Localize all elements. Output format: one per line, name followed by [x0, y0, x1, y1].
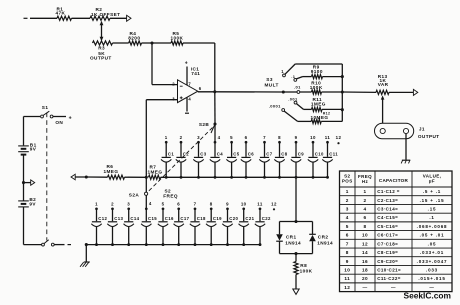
svg-text:3: 3 [197, 135, 200, 140]
bottom capacitor bus wire [86, 244, 260, 246]
switch S2B contact 4 [214, 135, 221, 144]
svg-text:1: 1 [281, 69, 284, 74]
interstage jump arrow (left) [71, 174, 75, 180]
svg-text:47K: 47K [56, 11, 66, 16]
wire J1 sleeve to ground [405, 134, 407, 160]
svg-text:.1: .1 [429, 215, 434, 220]
svg-text:C1·C12 =: C1·C12 = [377, 189, 400, 194]
switch S2B contact 3 [197, 135, 200, 143]
svg-text:C20: C20 [229, 216, 238, 221]
svg-text:1: 1 [95, 202, 98, 207]
label S3 MULT [265, 77, 279, 87]
svg-text:12: 12 [336, 135, 342, 140]
battery B2 9V [18, 183, 36, 207]
switch S2B contact 11 [325, 135, 331, 143]
label S2 FREQ [163, 189, 178, 199]
resistor R4 8200 [128, 31, 141, 45]
svg-text:11: 11 [344, 276, 350, 281]
svg-text:OUTPUT: OUTPUT [90, 55, 112, 60]
svg-text:1N914: 1N914 [285, 241, 301, 246]
label J1 OUTPUT [418, 126, 440, 138]
switch S2A contact 12 [271, 202, 277, 211]
R13 wiper arrow to jack [381, 95, 385, 123]
svg-text:CR1: CR1 [286, 235, 297, 240]
switch S2B contact 9 [295, 135, 298, 143]
jack J1 body [375, 123, 414, 139]
node battery midpoint [22, 181, 25, 184]
op-amp non-inverting input sign [180, 97, 183, 99]
minus rail marker [68, 244, 72, 246]
svg-text:S1: S1 [42, 105, 49, 110]
battery B1 9V [18, 142, 37, 154]
svg-text:9V: 9V [30, 147, 37, 152]
svg-text:10: 10 [310, 135, 316, 140]
capacitor C22 [255, 209, 271, 246]
feedback wire down to output node [214, 43, 216, 92]
svg-text:6: 6 [177, 202, 180, 207]
svg-text:.068+.0068: .068+.0068 [417, 224, 448, 229]
svg-text:POS: POS [342, 179, 353, 184]
table of capacitor values [340, 171, 453, 292]
capacitor C20 [222, 209, 238, 246]
label IC1 741 [191, 67, 200, 77]
wire R1 to R2 [72, 17, 91, 19]
wire R12 to bus corner [321, 120, 342, 122]
svg-text:C3: C3 [200, 152, 207, 157]
svg-text:.1: .1 [291, 74, 296, 79]
switch S3 contact 3 (.01) on wiper line [283, 84, 311, 93]
svg-text:3: 3 [127, 202, 130, 207]
switch S2A contact 9 [226, 202, 229, 211]
wire R5 to feedback corner [183, 42, 215, 44]
ground (chassis) at J1 [401, 160, 410, 163]
svg-text:1: 1 [165, 135, 168, 140]
output arrow [413, 89, 417, 95]
resistor R11 1MEG [311, 97, 326, 112]
op-amp pin 7 supply line with plus [186, 67, 188, 86]
capacitor C14 [124, 209, 140, 246]
svg-text:J1: J1 [419, 126, 425, 131]
negative supply rail marker [24, 17, 28, 19]
wire arrow to ground-branch junction [75, 176, 86, 178]
capacitor C12 [91, 209, 107, 246]
capacitor C13 [107, 209, 123, 246]
switch S3 contact 5 (.0001) [269, 103, 285, 111]
potentiometer R2 1K OFFSET [90, 7, 120, 20]
R2 wiper to R3 wiper link [100, 21, 104, 41]
svg-text:12: 12 [344, 285, 350, 290]
svg-text:OUTPUT: OUTPUT [418, 134, 440, 139]
svg-text:9100: 9100 [311, 69, 323, 74]
svg-text:1: 1 [346, 189, 349, 194]
svg-text:—: — [429, 285, 434, 290]
svg-text:R8: R8 [300, 263, 307, 268]
svg-text:C2·C13=: C2·C13= [377, 198, 398, 203]
wire R6 to pin3 junction [125, 176, 147, 178]
resistor R10 100K [310, 81, 323, 95]
capacitor C18 [190, 209, 206, 246]
svg-text:C22: C22 [262, 216, 271, 221]
svg-text:6: 6 [199, 86, 202, 91]
wire R10 to bus [322, 91, 343, 93]
svg-text:2: 2 [111, 202, 114, 207]
resistor R8 100K [294, 254, 313, 275]
wire B1 to battery midpoint [23, 155, 25, 183]
svg-text:C10: C10 [315, 152, 324, 157]
node junction pin3/R6/R7 [145, 176, 148, 179]
capacitor C8 [274, 142, 287, 179]
wire S3 contact 4 arm [297, 104, 304, 110]
potentiometer R13 1K VAR [376, 74, 389, 95]
switch S2B contact 6 [245, 135, 248, 143]
svg-text:C3·C14=: C3·C14= [377, 206, 398, 211]
svg-text:1MEG: 1MEG [311, 101, 326, 106]
svg-text:C11·C22=: C11·C22= [377, 276, 401, 281]
svg-text:7: 7 [188, 81, 191, 86]
wire S1 to battery B1 [23, 117, 25, 146]
svg-text:3: 3 [172, 96, 175, 101]
svg-text:4: 4 [149, 201, 152, 206]
wire junction down to op-amp pin 2 [151, 43, 153, 85]
svg-text:4: 4 [188, 96, 191, 101]
svg-text:16: 16 [362, 259, 368, 264]
switch S2B contact 2 [180, 135, 183, 143]
wire to CR2 cathode [312, 222, 314, 235]
svg-text:.01: .01 [294, 84, 301, 89]
wire output to S3 wiper [215, 91, 283, 93]
wire R2 to offset arrow [110, 17, 127, 19]
wire B2 minus to S1 pole B [23, 207, 25, 245]
svg-text:1: 1 [363, 189, 366, 194]
svg-text:.033+.01: .033+.01 [420, 250, 444, 255]
svg-text:.033: .033 [426, 268, 438, 273]
svg-text:C5·C16=: C5·C16= [377, 224, 398, 229]
switch S3 contact 4 (.001) [288, 96, 298, 104]
svg-text:C17: C17 [180, 216, 189, 221]
capacitor C9 [291, 142, 304, 179]
capacitor C2 [176, 142, 189, 179]
capacitor C16 [158, 209, 174, 246]
resistor R6 1MEG [104, 164, 125, 179]
svg-text:VAR: VAR [378, 82, 389, 87]
wire bus to R13 [342, 91, 376, 93]
wire R4 to R5 with feedback tap [142, 42, 172, 44]
S3 resistor bus vertical wire [341, 64, 343, 121]
svg-text:C4: C4 [217, 152, 224, 157]
svg-text:C21: C21 [245, 216, 254, 221]
svg-text:4: 4 [363, 206, 366, 211]
wire S1 pole A to plus rail [53, 116, 66, 118]
svg-text:C9: C9 [298, 152, 305, 157]
node junction mid-bus/ground branch [85, 175, 88, 178]
diode network bottom wire [280, 253, 313, 255]
svg-text:5: 5 [230, 135, 233, 140]
svg-text:SeekIC.com: SeekIC.com [404, 291, 451, 300]
switch S2A contact 10 [241, 202, 247, 211]
capacitor C7 [259, 142, 272, 179]
capacitor C17 [174, 209, 190, 246]
switch S2A contact 6 [177, 202, 180, 211]
svg-text:—: — [391, 285, 396, 290]
svg-text:C18: C18 [197, 216, 206, 221]
wire R3 to R4 [113, 42, 129, 44]
svg-text:.001: .001 [288, 96, 298, 101]
wire R8 to ground arrow [295, 275, 297, 290]
node junction bus/ground [85, 243, 88, 246]
svg-text:8: 8 [210, 202, 213, 207]
mid capacitor bus wire [161, 176, 328, 178]
jack J1 sleeve terminal [403, 128, 408, 133]
svg-text:C2: C2 [183, 152, 190, 157]
wire S1 pole B to minus rail [54, 244, 64, 246]
svg-text:C13: C13 [114, 216, 123, 221]
resistor R12 10MEG [311, 111, 331, 123]
capacitor C21 [239, 209, 255, 246]
diode network top wire [280, 221, 313, 223]
svg-text:6: 6 [363, 215, 366, 220]
switch S2B contact 10 [310, 135, 316, 143]
svg-text:2: 2 [346, 198, 349, 203]
svg-text:C7: C7 [266, 152, 273, 157]
wire S3 contact 2 arm [296, 77, 302, 79]
svg-text:8: 8 [346, 250, 349, 255]
wire S3 contact 1 direct to bus (x1 position) [285, 64, 295, 74]
svg-text:18: 18 [362, 268, 368, 273]
svg-text:µF: µF [429, 179, 435, 184]
diode CR2 1N914 [309, 234, 333, 245]
node junction R9/bus [341, 75, 344, 78]
svg-text:1N914: 1N914 [317, 241, 333, 246]
svg-text:C9·C20=: C9·C20= [377, 259, 398, 264]
svg-text:20: 20 [362, 276, 368, 281]
switch S2B contact 12 [336, 135, 342, 144]
capacitor C5 [226, 142, 239, 179]
switch S2A contact 1 [95, 202, 98, 211]
svg-text:6: 6 [346, 233, 349, 238]
switch S2B contact 8 [278, 135, 281, 143]
svg-text:5: 5 [346, 224, 349, 229]
wire S3 contact 5 arm [284, 111, 297, 121]
svg-text:2: 2 [363, 198, 366, 203]
wire CR1 cathode down [279, 241, 281, 253]
svg-text:7: 7 [263, 135, 266, 140]
ground (earth) left [80, 245, 90, 267]
svg-text:12: 12 [362, 241, 368, 246]
wire junction to R6 [86, 176, 107, 178]
svg-text:4: 4 [346, 215, 349, 220]
op-amp pin 6 output wire [198, 91, 215, 93]
svg-text:1MEG: 1MEG [104, 169, 119, 174]
svg-text:.15: .15 [428, 206, 437, 211]
switch S1 pole A [41, 111, 53, 118]
svg-text:FREQ: FREQ [163, 194, 178, 199]
switch S2A contact 4 [145, 201, 152, 210]
svg-text:3: 3 [346, 206, 349, 211]
svg-text:2: 2 [172, 81, 175, 86]
switch S2A contact 11 [257, 202, 263, 211]
svg-text:R3: R3 [98, 46, 105, 51]
svg-text:C15: C15 [148, 216, 157, 221]
wire R11 to bus [322, 108, 342, 110]
svg-text:12: 12 [271, 202, 277, 207]
wire to CR1 anode [279, 222, 281, 235]
svg-text:C19: C19 [213, 216, 222, 221]
wire CR2 anode down [312, 241, 314, 253]
svg-text:8200: 8200 [128, 35, 140, 40]
svg-text:C7·C18=: C7·C18= [377, 241, 398, 246]
svg-text:10MEG: 10MEG [311, 115, 329, 120]
svg-text:741: 741 [191, 71, 200, 76]
switch S3 wiper pivot node [282, 90, 285, 93]
svg-text:C5: C5 [233, 152, 240, 157]
capacitor C15 [141, 209, 157, 246]
svg-text:9V: 9V [29, 202, 36, 207]
svg-text:10: 10 [362, 233, 368, 238]
svg-text:9: 9 [346, 259, 349, 264]
node output junction [213, 90, 216, 93]
svg-text:CR2: CR2 [318, 235, 329, 240]
wire output node down to S2B wiper [214, 92, 216, 124]
svg-text:100K: 100K [171, 35, 184, 40]
svg-text:11: 11 [257, 202, 263, 207]
svg-text:9: 9 [295, 135, 298, 140]
diode CR1 1N914 [276, 234, 301, 245]
switch S2B contact 5 [230, 135, 233, 143]
svg-text:C8·C19=: C8·C19= [377, 250, 398, 255]
svg-text:C6·C17=: C6·C17= [377, 233, 398, 238]
svg-text:.15 + .15: .15 + .15 [420, 198, 445, 203]
capacitor C6 [241, 142, 254, 179]
svg-text:2: 2 [180, 135, 183, 140]
wire R13 to output arrow [389, 91, 414, 93]
capacitor C4 [210, 142, 223, 179]
op-amp IC1 741 body [178, 80, 198, 103]
switch S2B contact 1 [165, 135, 168, 143]
svg-text:1K OFFSET: 1K OFFSET [91, 12, 120, 17]
svg-text:8: 8 [363, 224, 366, 229]
resistor R1 47K [56, 7, 72, 21]
capacitor C10 [308, 142, 324, 179]
svg-text:.0001: .0001 [269, 103, 281, 108]
resistor R9 9100 [311, 64, 323, 78]
svg-text:7: 7 [194, 202, 197, 207]
switch S2A contact 5 [162, 202, 165, 211]
svg-text:.05: .05 [428, 241, 437, 246]
node junction R10/bus/output [341, 90, 344, 93]
svg-text:100K: 100K [310, 85, 323, 90]
op-amp inverting input sign [180, 85, 183, 87]
svg-text:C4·C15=: C4·C15= [377, 215, 398, 220]
svg-text:6: 6 [245, 135, 248, 140]
wire capacitor bus down to diode network [295, 177, 297, 221]
svg-text:+: + [69, 115, 72, 121]
svg-text:S2B: S2B [199, 122, 210, 127]
switch S2B wiper arm [211, 124, 215, 133]
svg-text:C6: C6 [248, 152, 255, 157]
capacitor C1 [161, 142, 174, 179]
switch S2A contact 7 [194, 202, 197, 211]
svg-text:C1: C1 [168, 152, 175, 157]
potentiometer R3 5K OUTPUT [90, 41, 113, 61]
resistor R5 100K [171, 31, 184, 45]
svg-text:CAPACITOR: CAPACITOR [379, 178, 409, 183]
svg-text:MULT: MULT [265, 82, 279, 87]
switch S2B contact 7 [263, 135, 266, 143]
capacitor C3 [193, 142, 206, 179]
svg-text:.033+.0047: .033+.0047 [417, 259, 448, 264]
switch S2A wiper pivot [145, 192, 148, 195]
switch S1 gang link (dashed) [46, 113, 48, 241]
svg-text:C16: C16 [165, 216, 174, 221]
svg-text:9: 9 [226, 202, 229, 207]
switch S2A contact 8 [210, 202, 213, 211]
svg-text:—: — [362, 285, 367, 290]
svg-text:C11: C11 [329, 152, 338, 157]
svg-text:.05 + .01: .05 + .01 [420, 233, 445, 238]
svg-text:4: 4 [218, 135, 221, 140]
switch S2A contact 2 [111, 202, 114, 211]
svg-text:C12: C12 [98, 216, 107, 221]
node junction R4/R5/pin2 [150, 41, 153, 44]
ganged switch link S2B to S2A (dashed) [147, 128, 213, 194]
svg-text:.015+.015: .015+.015 [418, 276, 445, 281]
battery midpoint jump arrow (right) [25, 182, 31, 184]
svg-text:10: 10 [344, 268, 350, 273]
svg-text:8: 8 [278, 135, 281, 140]
switch S1 pole B [42, 240, 55, 246]
capacitor C19 [206, 209, 222, 246]
svg-text:S2A: S2A [129, 193, 140, 198]
switch S2A contact 3 [127, 202, 130, 211]
node junction R11/bus [341, 108, 344, 111]
wire op-amp pin 3 to S2A wiper line [146, 99, 178, 101]
svg-text:+: + [185, 61, 188, 67]
offset connection arrow [127, 15, 131, 21]
ground (arrow) below R8 [293, 289, 299, 294]
svg-text:7: 7 [346, 241, 349, 246]
switch S3 contact 1 [281, 69, 285, 77]
svg-text:C10·C21=: C10·C21= [377, 268, 401, 273]
resistor R7 1MEG [148, 165, 163, 180]
wire negative rail to R1 [30, 17, 57, 19]
wire R9 to bus [323, 76, 343, 78]
svg-text:Hz: Hz [362, 179, 369, 184]
svg-text:1MEG: 1MEG [148, 169, 163, 174]
switch S2B wiper pivot [213, 122, 216, 125]
svg-text:11: 11 [325, 135, 331, 140]
op-amp pin 4 supply line with minus [186, 97, 188, 111]
wire battery plus to S1 pole A [24, 116, 41, 118]
node junction diode network bottom [294, 252, 297, 255]
svg-text:C8: C8 [281, 152, 288, 157]
node junction diode network top [294, 220, 297, 223]
svg-text:C14: C14 [130, 216, 139, 221]
switch S3 contact 2 (.1) [291, 74, 296, 82]
svg-text:14: 14 [362, 250, 368, 255]
svg-text:100K: 100K [300, 269, 313, 274]
jack J1 tip terminal [380, 128, 385, 133]
wire S2B pivot to contact 4 [214, 124, 216, 142]
svg-text:ON: ON [55, 120, 63, 125]
svg-text:10: 10 [241, 202, 247, 207]
svg-text:.5 + .1: .5 + .1 [423, 189, 441, 194]
svg-text:5: 5 [162, 202, 165, 207]
capacitor C11 [322, 142, 338, 179]
